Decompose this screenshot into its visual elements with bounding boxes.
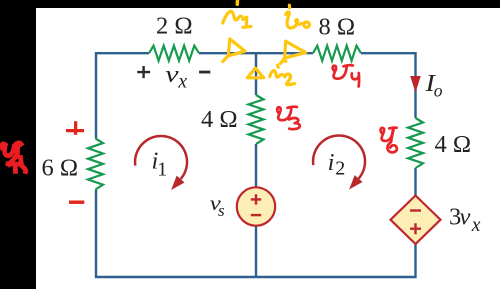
svg-text:4 Ω: 4 Ω [201,106,238,133]
svg-text:6 Ω: 6 Ω [42,154,79,181]
svg-text:i: i [328,149,335,176]
svg-text:x: x [471,215,481,236]
svg-text:2: 2 [335,158,345,180]
svg-text:4 Ω: 4 Ω [435,131,472,158]
svg-text:2 Ω: 2 Ω [156,13,193,40]
svg-text:v: v [460,204,471,231]
svg-text:s: s [218,201,225,220]
svg-text:v: v [165,61,178,88]
svg-text:x: x [177,71,187,92]
svg-text:8 Ω: 8 Ω [319,13,356,40]
svg-text:o: o [434,81,443,101]
svg-text:1: 1 [157,159,167,181]
